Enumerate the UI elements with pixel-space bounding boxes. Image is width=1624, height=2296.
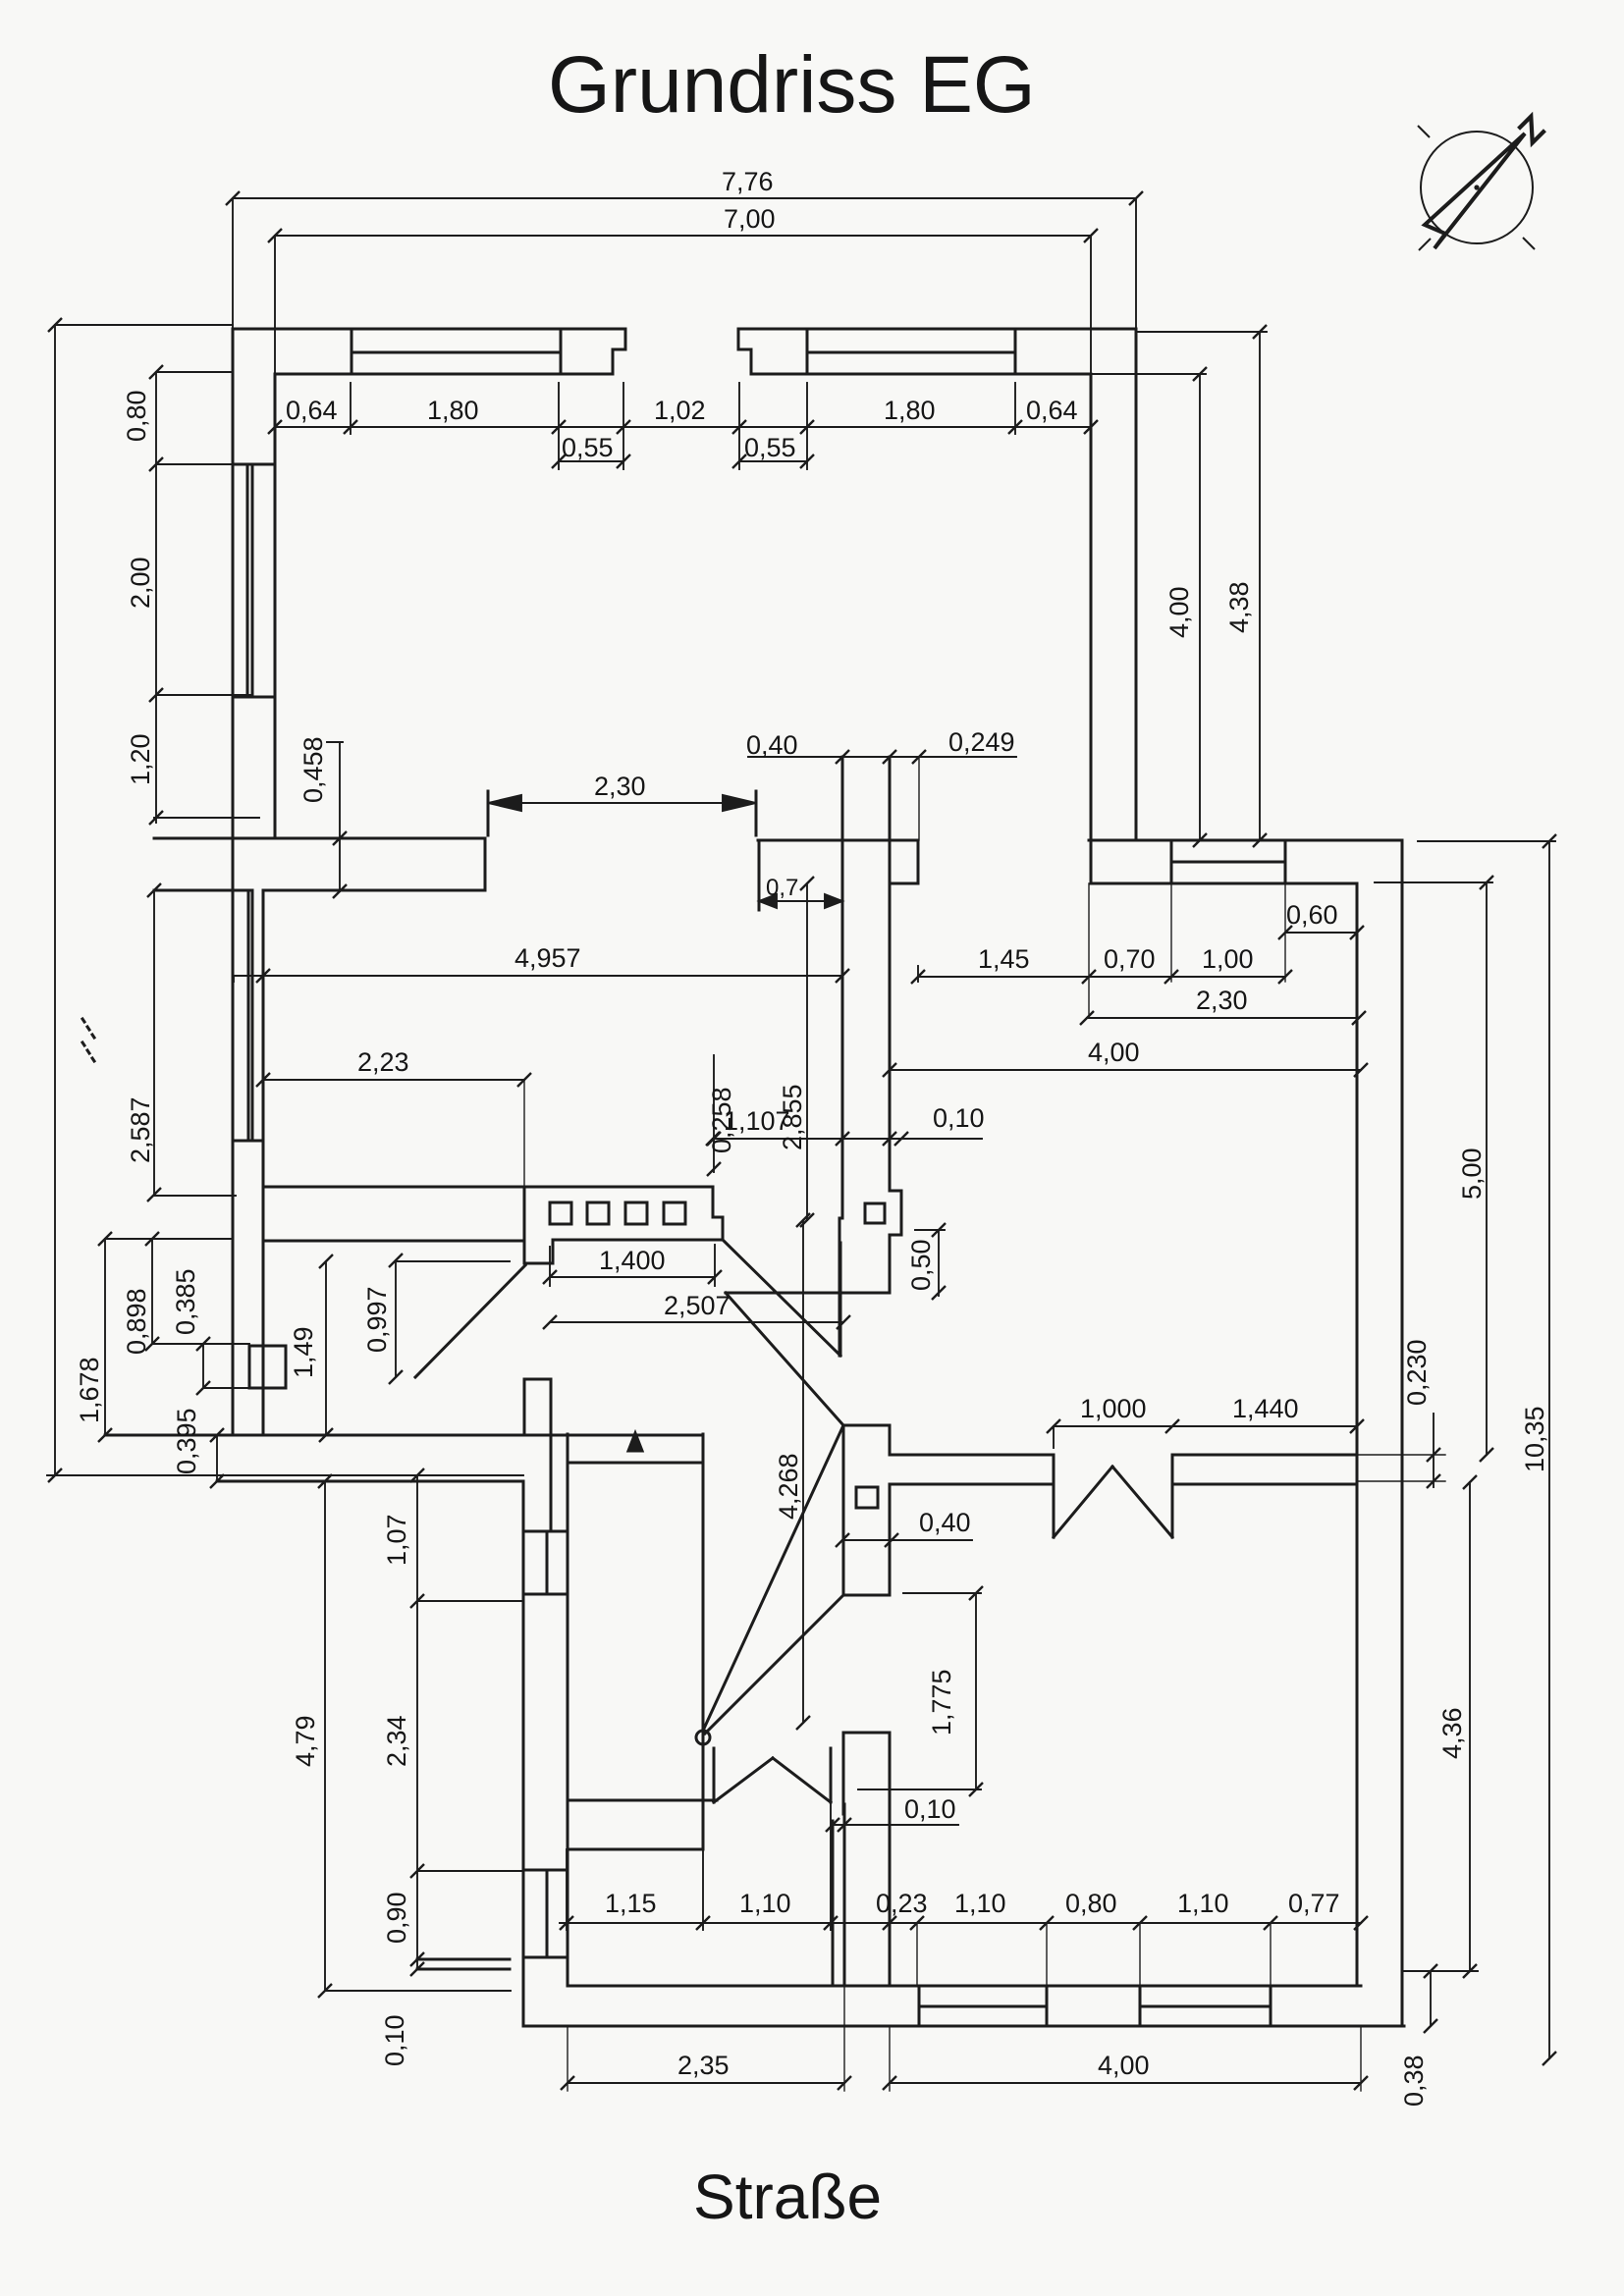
svg-text:Grundriss EG: Grundriss EG bbox=[548, 40, 1036, 130]
dim 4,79 extension bottom bbox=[325, 1990, 511, 1992]
dim extension y708 bbox=[156, 694, 251, 696]
dim 0,80 2,00 1,20 column line bbox=[155, 372, 157, 823]
dim row extension x569 bbox=[558, 383, 560, 469]
dim 4,957 line bbox=[234, 975, 842, 977]
wall stair-left outer face bbox=[522, 1481, 525, 2026]
dim bottom extension x577 bbox=[566, 1849, 568, 1930]
svg-text:0,997: 0,997 bbox=[362, 1286, 392, 1353]
dim 1,678 column line bbox=[104, 1239, 106, 1435]
ticks bottom window row bbox=[560, 1916, 1368, 1930]
dim bottom extension x1066 bbox=[1046, 1923, 1048, 1986]
ticks 2,35 and 4,00 bottom bbox=[561, 2076, 1368, 2090]
flue box in lobby wall bbox=[856, 1487, 878, 1508]
dim 4,00 right column line bbox=[1199, 374, 1201, 840]
svg-text:1,20: 1,20 bbox=[126, 733, 155, 785]
dim 1,000 extension left bbox=[1053, 1426, 1055, 1448]
dim 4,00 bottom extension right bbox=[1360, 2026, 1362, 2091]
ticks 0,10 door bbox=[826, 1818, 851, 1832]
dim 0,230 extension lower bbox=[1359, 1480, 1445, 1482]
svg-text:0,385: 0,385 bbox=[171, 1268, 200, 1335]
flue box in middle wall bbox=[865, 1203, 885, 1223]
lobby west wall east face mid bbox=[889, 1484, 892, 1595]
glass block wall top line bbox=[263, 1186, 713, 1189]
svg-text:0,230: 0,230 bbox=[1402, 1339, 1432, 1406]
svg-text:2,35: 2,35 bbox=[677, 2051, 730, 2080]
svg-text:0,80: 0,80 bbox=[1065, 1889, 1117, 1918]
svg-text:0,50: 0,50 bbox=[906, 1239, 936, 1291]
wall mid band opening jamb left bbox=[484, 838, 487, 890]
glass block pane 1 bbox=[550, 1202, 571, 1224]
dim 4,36 extension bottom bbox=[1402, 1970, 1478, 1972]
compass needle arrow bbox=[1425, 133, 1525, 248]
wall mid band top line left bbox=[154, 837, 485, 840]
wall band top line right section bbox=[1089, 839, 1402, 842]
glass block pane 3 bbox=[625, 1202, 647, 1224]
dim 0,55 right line bbox=[739, 460, 807, 462]
exterior step edge upper bbox=[417, 1958, 510, 1961]
ticks 5,00 bbox=[1480, 876, 1493, 1462]
lobby west wall east face upper bbox=[889, 1425, 892, 1455]
lobby west wall bottom cap bbox=[843, 1594, 890, 1597]
ticks 1,107 row bbox=[706, 1132, 849, 1146]
svg-text:0,40: 0,40 bbox=[746, 730, 798, 760]
wall mid band bottom line left inner bbox=[263, 889, 485, 892]
bath door leaf diagonal bbox=[415, 1265, 525, 1377]
dim 7,76 extension left bbox=[232, 198, 234, 329]
wall left exterior inner face lower bbox=[262, 890, 265, 1346]
dim 0,230 extension upper bbox=[1359, 1454, 1445, 1456]
svg-text:0,395: 0,395 bbox=[172, 1408, 201, 1474]
dim bottom row 1,15 1,10 0,23 1,10 0,80 1,10 0,77 line bbox=[560, 1922, 1361, 1924]
wall top exterior inner line left part bbox=[275, 373, 613, 376]
dim 1,45 extension x935 bbox=[917, 966, 919, 982]
dim 0,997 column line bbox=[395, 1260, 397, 1377]
svg-text:4,38: 4,38 bbox=[1224, 581, 1254, 633]
dim bottom extension x1161 bbox=[1139, 1923, 1141, 1986]
ticks 0,60 bbox=[1278, 926, 1364, 939]
svg-text:2,507: 2,507 bbox=[664, 1291, 731, 1320]
dim 0,258 column line bbox=[713, 1055, 715, 1172]
dim extension x1193 bbox=[1170, 883, 1172, 982]
ticks 0,40 lobby bbox=[836, 1533, 898, 1547]
glass block pane 4 bbox=[664, 1202, 685, 1224]
compass N letter bbox=[1519, 117, 1545, 143]
wall inner face continuation x561 bbox=[550, 1435, 553, 1531]
dim extension x1109 bbox=[1088, 883, 1090, 1018]
dim bottom extension x934 bbox=[916, 1923, 918, 1986]
dim 1,45 0,70 1,00 row line bbox=[918, 976, 1285, 978]
dim 2,30 arrowhead right bbox=[723, 795, 756, 811]
svg-text:2,34: 2,34 bbox=[382, 1715, 411, 1767]
window W8 stair wall bottom cap bbox=[523, 1593, 568, 1596]
ticks 0,230 bbox=[1427, 1448, 1440, 1488]
dim left overall column line bbox=[54, 325, 56, 1475]
svg-text:0,249: 0,249 bbox=[948, 727, 1015, 757]
compass spoke tick SE bbox=[1523, 238, 1535, 249]
wall top exterior outer line left part bbox=[233, 328, 625, 331]
svg-text:0,10: 0,10 bbox=[904, 1794, 956, 1824]
svg-text:0,55: 0,55 bbox=[562, 433, 614, 462]
dim 2,855 column line bbox=[806, 883, 808, 1220]
wall middle east face lower bbox=[889, 1235, 892, 1293]
ticks 0,50 bbox=[932, 1223, 946, 1300]
svg-text:4,00: 4,00 bbox=[1088, 1038, 1140, 1067]
window W8 stair wall top cap bbox=[523, 1530, 568, 1533]
dim 1,775 column line bbox=[975, 1593, 977, 1789]
dim 7,00 line bbox=[275, 235, 1091, 237]
ticks 0,10 middle bbox=[883, 1132, 908, 1146]
dim extension y379 bbox=[156, 371, 233, 373]
dim 10,35 column line bbox=[1548, 841, 1550, 2058]
wall middle vertical east face bbox=[889, 757, 892, 1191]
ticks 1,400 bbox=[543, 1270, 722, 1284]
svg-text:0,64: 0,64 bbox=[1026, 396, 1078, 425]
ticks 0,80 2,00 1,20 column bbox=[149, 365, 163, 825]
svg-text:0,90: 0,90 bbox=[382, 1892, 411, 1944]
dim 4,38 extension top bbox=[1136, 331, 1267, 333]
wall west of right room lower east face bbox=[889, 1733, 892, 1986]
window W8 glass line bbox=[546, 1531, 549, 1594]
wall mid band bottom line left outer bbox=[154, 889, 251, 892]
dim 2,587 column line bbox=[153, 890, 155, 1195]
wall west of right room lower west face bbox=[842, 1733, 845, 1814]
svg-text:1,000: 1,000 bbox=[1080, 1394, 1147, 1423]
dim 1,07 2,34 0,90 0,10 column line bbox=[416, 1475, 418, 1969]
ticks 0,898 bbox=[145, 1232, 159, 1351]
dim 7,76 line bbox=[233, 197, 1136, 199]
dim 1,400 extension right bbox=[714, 1245, 716, 1286]
dim break dots bbox=[82, 1019, 94, 1061]
dim 0,40 lobby line bbox=[842, 1539, 972, 1541]
window W4 left wall bottom cap bbox=[233, 1140, 263, 1143]
ticks 0,40 0,249 row bbox=[836, 750, 926, 764]
ticks 1,000 1,440 row bbox=[1047, 1419, 1364, 1433]
svg-text:2,30: 2,30 bbox=[1196, 986, 1248, 1015]
dim 1,775 extension top bbox=[903, 1592, 981, 1594]
dim 0,38 column line bbox=[1430, 1971, 1432, 2026]
window W9 stair wall top cap bbox=[523, 1869, 568, 1872]
svg-text:4,957: 4,957 bbox=[514, 943, 581, 973]
dim row extension x635 bbox=[623, 383, 624, 469]
wall stair-left inner face bbox=[567, 1434, 569, 1986]
svg-text:2,00: 2,00 bbox=[126, 557, 155, 609]
svg-text:1,10: 1,10 bbox=[954, 1889, 1006, 1918]
svg-text:7,76: 7,76 bbox=[722, 167, 774, 196]
dim extension y1262 bbox=[105, 1238, 233, 1240]
lobby north wall top line bbox=[890, 1454, 1054, 1457]
chimney niche divider bbox=[262, 1346, 265, 1388]
dim row extension x753 bbox=[738, 383, 740, 469]
dim extension y473 bbox=[156, 463, 233, 465]
svg-text:1,80: 1,80 bbox=[427, 396, 479, 425]
compass center dot bbox=[1474, 185, 1479, 189]
wall bottom outer line bbox=[523, 2025, 1404, 2028]
ticks window row top bbox=[268, 420, 1098, 434]
dim 2,30 arrow line bbox=[488, 802, 756, 804]
wall middle jog step top bbox=[890, 1190, 901, 1193]
door leaf diagonal kitchen B bbox=[726, 1293, 843, 1425]
wall middle jog step bottom bbox=[890, 1234, 901, 1237]
glass block pane 2 bbox=[587, 1202, 609, 1224]
wall bottom inner line bbox=[568, 1985, 1361, 1988]
ticks 1,07 2,34 0,90 0,10 column bbox=[410, 1468, 424, 1976]
ticks 0,385 bbox=[196, 1337, 210, 1395]
svg-text:4,79: 4,79 bbox=[291, 1715, 320, 1767]
stair shaft east face bbox=[702, 1434, 705, 1849]
dim 2,35 line bbox=[568, 2082, 844, 2084]
dim 1,400 extension left bbox=[549, 1247, 551, 1286]
window W9 glass line bbox=[546, 1870, 549, 1957]
window W4 glass pair bbox=[248, 890, 252, 1141]
window W5 glass line bbox=[1171, 861, 1285, 864]
dim 2,35 extension right bbox=[843, 1986, 845, 2091]
svg-text:0,70: 0,70 bbox=[1104, 944, 1156, 974]
dim 0,40 0,249 row line bbox=[748, 756, 1016, 758]
ticks 0,997 bbox=[389, 1254, 403, 1384]
wall right exterior inner face bbox=[1356, 883, 1359, 1986]
window W1 sill notch bbox=[613, 329, 625, 374]
dim 4,36 column line bbox=[1469, 1482, 1471, 1971]
wall middle bottom edge bbox=[726, 1292, 890, 1295]
dim extension x1309 bbox=[1284, 883, 1286, 982]
window W2 glass line bbox=[807, 351, 1015, 354]
window W2 top wall left jamb bbox=[806, 329, 809, 374]
svg-text:1,678: 1,678 bbox=[75, 1357, 104, 1423]
compass circle bbox=[1421, 132, 1533, 243]
entrance wall north line east part bbox=[1172, 1454, 1357, 1457]
dim 2,30 arrow bar right bbox=[755, 791, 758, 835]
wall thin pair east face bbox=[843, 1804, 846, 1986]
svg-text:1,02: 1,02 bbox=[654, 396, 706, 425]
wall left exterior outer face bbox=[232, 329, 235, 1435]
dim 7,00 extension left bbox=[274, 236, 276, 374]
dim 0,395 column line bbox=[216, 1435, 218, 1481]
window W2 top wall right jamb bbox=[1014, 329, 1017, 374]
dim extension y1369 bbox=[152, 1343, 249, 1345]
dim 4,00 bottom extension left bbox=[889, 2026, 891, 2091]
ticks 1,49 bbox=[319, 1255, 333, 1442]
svg-text:0,40: 0,40 bbox=[919, 1508, 971, 1537]
lobby door leaf short diagonal bbox=[705, 1595, 843, 1734]
svg-text:0,898: 0,898 bbox=[122, 1288, 151, 1355]
dim 1,107 0,10 row line bbox=[713, 1138, 982, 1140]
ticks 2,30 right bbox=[1080, 1011, 1366, 1025]
wall left exterior inner face above niche bbox=[262, 1388, 265, 1435]
dim 0,50 extension top bbox=[915, 1229, 945, 1231]
bath door jamb stub cap bbox=[524, 1378, 551, 1381]
stair bottom line lower bbox=[568, 1848, 703, 1851]
svg-text:0,10: 0,10 bbox=[933, 1103, 985, 1133]
glass block sill bottom line bbox=[553, 1239, 723, 1242]
dim 0,997 extension top bbox=[396, 1260, 510, 1262]
dim 0,60 line bbox=[1285, 932, 1357, 934]
wall middle vertical west face lower jog bbox=[839, 1218, 841, 1356]
entrance door leaf left bbox=[1054, 1467, 1112, 1537]
glass block right notch bbox=[713, 1187, 723, 1240]
svg-text:0,458: 0,458 bbox=[298, 736, 328, 803]
window W7 glass line bbox=[1140, 2005, 1271, 2008]
ticks 0,55 dims bbox=[552, 454, 814, 468]
dim 0,7 arrow line bbox=[759, 900, 842, 902]
bath door jamb stub east face bbox=[550, 1379, 553, 1435]
svg-text:0,10: 0,10 bbox=[380, 2014, 409, 2066]
dim extension y1631 bbox=[417, 1600, 523, 1602]
entrance door jamb right bbox=[1171, 1455, 1174, 1537]
dim 4,957 extension left bbox=[233, 976, 235, 982]
window W7 bottom right jamb bbox=[1270, 1986, 1272, 2026]
door M bottom left jamb bbox=[713, 1748, 716, 1802]
svg-text:1,07: 1,07 bbox=[382, 1514, 411, 1566]
lobby north wall bottom line bbox=[892, 1483, 1054, 1486]
dim bottom extension x846 bbox=[830, 1802, 832, 1930]
dim 2,30 arrow bar left bbox=[487, 791, 490, 835]
ticks 0,38 bbox=[1424, 1964, 1437, 2033]
window W3 left wall bottom cap bbox=[233, 696, 275, 699]
ticks 4,268 bbox=[796, 1213, 810, 1730]
svg-text:2,587: 2,587 bbox=[126, 1096, 155, 1163]
dim extension y1218 bbox=[154, 1195, 236, 1197]
lobby west wall top cap bbox=[843, 1424, 890, 1427]
window W2 sill notch bbox=[738, 329, 751, 374]
stair top landing line bbox=[568, 1462, 703, 1465]
svg-text:1,775: 1,775 bbox=[927, 1669, 956, 1735]
lobby door leaf long diagonal bbox=[703, 1425, 843, 1731]
stair direction arrow bbox=[628, 1433, 642, 1451]
dim extension x858 above band bbox=[841, 757, 843, 840]
dim extension y1414 bbox=[203, 1387, 249, 1389]
svg-text:Straße: Straße bbox=[693, 2162, 882, 2232]
dim 0,7 arrowhead right bbox=[825, 894, 842, 908]
chimney niche box left wall bbox=[249, 1346, 286, 1388]
wall mid band bottom right bbox=[891, 882, 918, 885]
door M bottom leaf right bbox=[773, 1758, 831, 1802]
svg-text:1,45: 1,45 bbox=[978, 944, 1030, 974]
window W1 top wall left jamb bbox=[351, 329, 353, 374]
dim 2,23 extension right bbox=[523, 1080, 525, 1187]
glass block wall bottom line left bbox=[263, 1240, 524, 1243]
wall mid band top line right bbox=[758, 839, 918, 842]
wall mid band right end bbox=[917, 840, 920, 883]
dim 0,7 arrowhead left bbox=[759, 894, 777, 908]
ticks 2,587 bbox=[147, 883, 161, 1201]
bath door jamb wall vertical bbox=[523, 1187, 526, 1263]
svg-text:0,60: 0,60 bbox=[1286, 900, 1338, 930]
dim left overall extension top bbox=[55, 324, 233, 326]
svg-text:0,55: 0,55 bbox=[744, 433, 796, 462]
wall west of right room lower piece cap bbox=[843, 1732, 890, 1735]
window W6 bottom left jamb bbox=[918, 1986, 921, 2026]
svg-text:0,77: 0,77 bbox=[1288, 1889, 1340, 1918]
dim 7,76 extension right bbox=[1135, 198, 1137, 329]
exterior step edge lower bbox=[417, 1968, 510, 1971]
svg-text:0,23: 0,23 bbox=[876, 1889, 928, 1918]
dim extension y833 bbox=[154, 817, 259, 819]
dim 5,00 column line bbox=[1486, 882, 1488, 1455]
wall right exterior outer face bbox=[1401, 840, 1404, 2026]
ticks 1,45 0,70 1,00 row bbox=[911, 970, 1292, 984]
window W3 left wall top cap bbox=[233, 463, 275, 466]
dim extension x936 above band bbox=[918, 757, 920, 840]
dim 0,230 column line bbox=[1433, 1414, 1435, 1487]
dim 5,00 extension top bbox=[1375, 881, 1492, 883]
window W3 glass pair bbox=[247, 464, 252, 697]
svg-text:4,00: 4,00 bbox=[1164, 586, 1194, 638]
dim 4,00 right room line bbox=[890, 1069, 1361, 1071]
dim 1,400 line bbox=[550, 1276, 715, 1278]
window W9 stair wall bottom cap bbox=[523, 1956, 568, 1959]
svg-text:0,38: 0,38 bbox=[1399, 2055, 1429, 2107]
lobby west wall west face upper bbox=[842, 1425, 845, 1595]
svg-text:1,49: 1,49 bbox=[289, 1326, 318, 1378]
dim 0,10 door line bbox=[833, 1824, 958, 1826]
door hinge circle bbox=[696, 1731, 710, 1744]
ticks 4,00 4,38 right columns bbox=[1193, 325, 1267, 847]
north arrow compass bbox=[1418, 117, 1544, 250]
wall middle jog east face bbox=[900, 1191, 903, 1235]
ticks 2,855 bbox=[800, 877, 814, 1227]
ticks 0,258 bbox=[707, 1132, 721, 1176]
dim extension y1503 bbox=[47, 1474, 523, 1476]
dim extension y1906 bbox=[417, 1870, 523, 1872]
svg-text:0,64: 0,64 bbox=[286, 396, 338, 425]
svg-text:1,00: 1,00 bbox=[1202, 944, 1254, 974]
ticks 2,23 bbox=[256, 1073, 531, 1087]
window W6 bottom right jamb bbox=[1046, 1986, 1049, 2026]
svg-text:1,10: 1,10 bbox=[739, 1889, 791, 1918]
wall mid band left edge descending bbox=[758, 840, 761, 910]
dim 0,55 left line bbox=[559, 460, 623, 462]
svg-text:0,80: 0,80 bbox=[122, 390, 151, 442]
wall middle vertical west face bbox=[841, 757, 844, 1218]
dim 4,79 column line bbox=[324, 1481, 326, 1991]
dim 0,385 column line bbox=[202, 1344, 204, 1388]
svg-text:5,00: 5,00 bbox=[1457, 1148, 1487, 1200]
wall top exterior inner line right part bbox=[751, 373, 1091, 376]
door M bottom right jamb bbox=[830, 1748, 833, 1802]
window W1 top wall right jamb bbox=[560, 329, 563, 374]
ticks top dims bbox=[226, 191, 1143, 242]
dim bottom extension x716 bbox=[702, 1849, 704, 1930]
ticks 4,36 bbox=[1463, 1475, 1477, 1978]
ticks 1,775 bbox=[969, 1586, 983, 1796]
ticks 0,458 bbox=[333, 831, 347, 898]
ticks 10,35 bbox=[1543, 834, 1556, 2065]
window W5 band right jamb bbox=[1284, 840, 1287, 883]
svg-text:0,258: 0,258 bbox=[707, 1087, 736, 1153]
ticks left overall column bbox=[48, 318, 62, 1482]
ticks 0,395 bbox=[210, 1428, 224, 1488]
svg-text:2,30: 2,30 bbox=[594, 772, 646, 801]
ticks 4,957 bbox=[256, 969, 849, 983]
dim 2,35 extension left bbox=[567, 2026, 568, 2091]
window W6 glass line bbox=[919, 2005, 1047, 2008]
entrance door leaf right bbox=[1112, 1467, 1172, 1537]
dim 2,30 arrowhead left bbox=[488, 795, 521, 811]
ticks 4,00 right room bbox=[883, 1063, 1368, 1077]
dim 0,458 top cap bbox=[327, 741, 343, 743]
svg-text:1,440: 1,440 bbox=[1232, 1394, 1299, 1423]
wall band lower-left top line bbox=[105, 1434, 703, 1437]
svg-text:1,400: 1,400 bbox=[599, 1246, 666, 1275]
wall band inner line right section bbox=[1091, 882, 1357, 885]
dim 4,38 right column line bbox=[1259, 332, 1261, 840]
dim 10,35 extension top bbox=[1418, 840, 1555, 842]
dim 2,30 right line bbox=[1087, 1017, 1359, 1019]
glass block sill step bbox=[524, 1240, 553, 1263]
svg-text:1,80: 1,80 bbox=[884, 396, 936, 425]
entrance door jamb left bbox=[1053, 1455, 1056, 1537]
stair bottom line upper bbox=[570, 1799, 717, 1802]
